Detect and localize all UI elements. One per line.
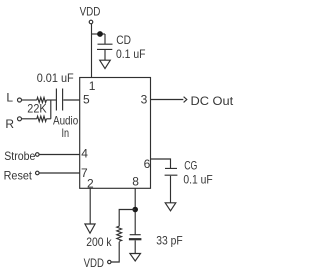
- svg-text:200 k: 200 k: [86, 235, 112, 249]
- ground (CD): [100, 60, 111, 68]
- ground (CG): [165, 203, 176, 211]
- op-amp U1 body (IC rectangle): [80, 78, 151, 189]
- svg-text:0.01 uF: 0.01 uF: [37, 71, 74, 85]
- wire pin 2 to ground: [89, 188, 91, 224]
- wire pin1 from VDD terminal to IC top: [91, 24, 93, 78]
- junction dot CD branch: [97, 31, 103, 37]
- capacitor C1 0.01uF: [56, 89, 62, 111]
- ground (33pF): [130, 254, 141, 262]
- terminal VDD bottom: [108, 260, 111, 263]
- svg-text:8: 8: [132, 175, 139, 189]
- resistor R3 200k: [117, 226, 122, 241]
- svg-text:1: 1: [89, 79, 96, 93]
- svg-text:2: 2: [87, 176, 94, 190]
- junction dot pin 8: [132, 207, 138, 213]
- wire cap to pin 5: [63, 99, 79, 101]
- terminal Strobe: [36, 153, 40, 157]
- svg-text:22K: 22K: [27, 102, 46, 116]
- terminal L: [18, 98, 22, 102]
- svg-text:L: L: [6, 91, 13, 105]
- wire Reset to pin 7: [39, 172, 79, 174]
- svg-text:CG: CG: [184, 158, 197, 172]
- wire 33pF to ground: [134, 240, 136, 253]
- svg-text:Strobe: Strobe: [4, 149, 35, 163]
- svg-text:5: 5: [83, 93, 90, 107]
- wire dot to 200k branch: [119, 210, 135, 227]
- capacitor CG: [165, 168, 178, 175]
- terminal VDD top: [89, 20, 93, 24]
- wire resistor to cap: [46, 99, 56, 101]
- svg-text:In: In: [62, 126, 70, 140]
- svg-text:0.1 uF: 0.1 uF: [116, 47, 146, 61]
- wire CD to ground: [104, 50, 106, 60]
- svg-text:DC Out: DC Out: [191, 94, 234, 108]
- wire junction L/R: [50, 100, 52, 119]
- svg-text:VDD: VDD: [84, 256, 105, 270]
- wire R to resistor: [22, 118, 37, 120]
- svg-text:R: R: [5, 117, 14, 131]
- capacitor CD: [97, 44, 113, 49]
- wire dot to CD: [104, 34, 106, 44]
- wire CG to ground: [170, 176, 172, 203]
- svg-text:33 pF: 33 pF: [156, 233, 182, 247]
- ground (pin 2): [85, 224, 95, 233]
- svg-text:Reset: Reset: [4, 168, 33, 182]
- terminal Reset: [36, 171, 40, 175]
- svg-text:VDD: VDD: [80, 4, 101, 18]
- svg-text:3: 3: [141, 93, 148, 107]
- wire L to resistor: [22, 99, 37, 101]
- wire 200k to VDD terminal: [111, 242, 119, 262]
- svg-text:0.1 uF: 0.1 uF: [183, 172, 212, 186]
- resistor R1 22K (L): [37, 97, 47, 102]
- resistor R2 22K (R): [37, 116, 47, 121]
- wire stub to CD branch: [92, 33, 106, 35]
- wire resistor to junction: [46, 118, 50, 120]
- capacitor C2 33pF: [130, 234, 141, 236]
- wire pin 6 to CG: [151, 159, 171, 168]
- wire Strobe to pin 4: [39, 154, 79, 156]
- arrow DC Out: [184, 97, 187, 103]
- svg-text:4: 4: [81, 147, 88, 161]
- svg-text:CD: CD: [116, 33, 131, 47]
- wire pin 8 down: [134, 188, 136, 234]
- wire pin 3 to DC Out: [151, 99, 184, 101]
- terminal R: [18, 117, 22, 121]
- svg-text:6: 6: [144, 157, 151, 171]
